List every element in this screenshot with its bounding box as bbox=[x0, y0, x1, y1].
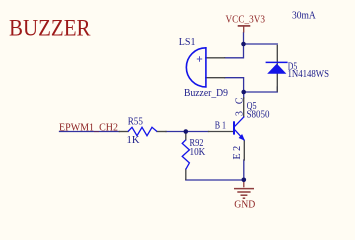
svg-text:R55: R55 bbox=[128, 116, 143, 127]
svg-text:EPWM1_CH2: EPWM1_CH2 bbox=[59, 122, 118, 133]
svg-text:Buzzer_D9: Buzzer_D9 bbox=[184, 88, 228, 99]
svg-text:GND: GND bbox=[234, 200, 255, 210]
svg-text:E 2: E 2 bbox=[232, 146, 243, 160]
svg-text:S8050: S8050 bbox=[247, 110, 270, 121]
svg-text:1N4148WS: 1N4148WS bbox=[288, 69, 330, 80]
svg-text:30mA: 30mA bbox=[292, 11, 317, 22]
svg-text:VCC_3V3: VCC_3V3 bbox=[226, 15, 266, 26]
svg-text:B 1: B 1 bbox=[215, 121, 226, 132]
svg-text:BUZZER: BUZZER bbox=[9, 16, 91, 42]
svg-text:1K: 1K bbox=[127, 135, 141, 146]
svg-text:LS1: LS1 bbox=[179, 37, 196, 48]
svg-text:10K: 10K bbox=[190, 147, 207, 158]
svg-text:3 C: 3 C bbox=[235, 95, 246, 116]
